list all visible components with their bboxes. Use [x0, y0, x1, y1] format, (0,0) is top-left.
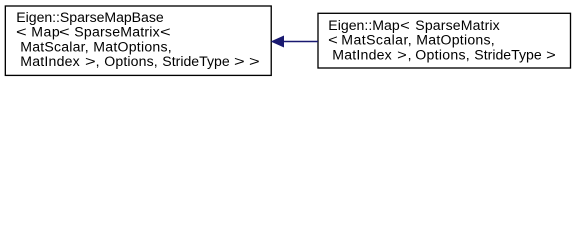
svg-text:>: >	[397, 47, 407, 63]
node box: base class Eigen::SparseMapBase	[5, 6, 271, 75]
svg-text:StrideType: StrideType	[162, 53, 230, 69]
svg-text:MatScalar,: MatScalar,	[20, 38, 88, 54]
svg-text:MatIndex: MatIndex	[332, 46, 391, 62]
svg-text:>: >	[85, 54, 96, 70]
svg-text:MatOptions,: MatOptions,	[93, 38, 171, 54]
svg-text:StrideType: StrideType	[474, 46, 542, 62]
svg-text:,: ,	[96, 53, 100, 69]
svg-text:<: <	[160, 25, 171, 41]
svg-text:SparseMatrix: SparseMatrix	[415, 17, 499, 33]
svg-text:Options,: Options,	[104, 53, 157, 69]
svg-text:<: <	[16, 25, 27, 41]
svg-text:Map: Map	[31, 24, 60, 40]
svg-text:<: <	[400, 18, 410, 34]
svg-text:>: >	[249, 54, 260, 70]
svg-text:<: <	[59, 25, 70, 41]
node box: derived class Eigen::Map	[318, 13, 571, 68]
svg-text:SparseMatrix: SparseMatrix	[74, 24, 159, 40]
svg-text:>: >	[546, 47, 556, 63]
inheritance arrowhead pointing to base class	[271, 36, 284, 48]
svg-text:MatOptions,: MatOptions,	[416, 32, 494, 48]
svg-text:>: >	[234, 54, 245, 70]
svg-text:MatScalar,: MatScalar,	[341, 32, 411, 48]
svg-text:Eigen::SparseMapBase: Eigen::SparseMapBase	[16, 9, 164, 25]
inheritance arrow shaft (midnightblue)	[284, 41, 319, 43]
svg-text:MatIndex: MatIndex	[20, 53, 79, 69]
svg-text:,: ,	[408, 46, 412, 62]
svg-text:<: <	[328, 33, 338, 49]
svg-text:Eigen::Map: Eigen::Map	[328, 17, 400, 33]
svg-text:Options,: Options,	[415, 46, 469, 62]
